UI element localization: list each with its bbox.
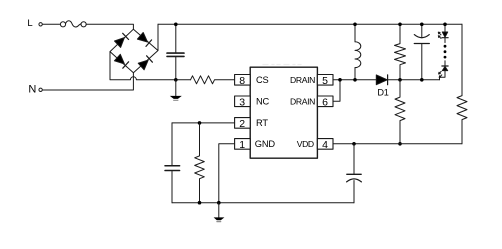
LED string top wire — [444, 24, 446, 32]
wire LED2 to switch node with jog — [440, 71, 446, 80]
capacitor C1 (bulk after bridge) — [167, 24, 184, 80]
pin 5 box — [317, 75, 333, 88]
wire fuse to bridge top — [86, 24, 133, 29]
resistor R1 (to CS pin) — [191, 76, 235, 84]
terminal N — [39, 88, 42, 91]
resistor R5 (RT) — [195, 123, 205, 203]
op-amp-style IC U1 body — [250, 67, 317, 158]
bridge diode left-bottom — [114, 54, 128, 68]
terminal L — [39, 23, 42, 26]
wire VDD line — [333, 143, 462, 145]
pin 4 box — [317, 139, 333, 152]
wire LED1 to dots — [444, 38, 446, 42]
svg-text:RT: RT — [256, 118, 268, 128]
svg-text:5: 5 — [322, 75, 328, 87]
wire bottom rail — [172, 202, 354, 204]
svg-text:L: L — [27, 18, 32, 29]
fuse F1 — [60, 21, 86, 27]
diode D1 — [376, 75, 439, 85]
svg-text:CS: CS — [256, 75, 269, 85]
node N label — [28, 84, 36, 96]
junction dot rail-R2 — [398, 23, 402, 27]
capacitor C4 (RT) — [165, 123, 180, 203]
svg-text:DRAIN: DRAIN — [290, 96, 315, 106]
LED LED2 — [439, 66, 449, 78]
capacitor C2 (snubber) — [414, 24, 429, 80]
resistor R3 (right) — [457, 96, 467, 144]
svg-text:D1: D1 — [377, 87, 388, 97]
wire L terminal to fuse — [43, 23, 61, 25]
junction dot C2-switch node — [420, 78, 424, 82]
node L label — [27, 18, 32, 29]
svg-text:VDD: VDD — [297, 139, 314, 149]
junction dot rail-C1 — [174, 23, 178, 27]
inductor L1 — [355, 24, 361, 80]
ground (signal) — [214, 203, 225, 222]
wire pin 5 to switch node — [333, 79, 376, 81]
svg-text:1: 1 — [239, 139, 245, 151]
pin 6 box — [317, 96, 333, 109]
resistor R4 (switch node to VDD line) — [395, 80, 405, 144]
junction dot pin5/6 — [338, 78, 342, 82]
bridge rectifier BR1 outline — [110, 29, 158, 73]
svg-text:6: 6 — [322, 97, 328, 109]
wire pin 6 up to switch node — [333, 80, 340, 102]
svg-text:4: 4 — [322, 139, 328, 151]
junction dot rail-C2 — [420, 23, 424, 27]
junction dot RT net — [198, 121, 202, 125]
junction dot GND-bottom rail — [217, 201, 221, 205]
bridge diode bottom-right — [138, 56, 152, 70]
junction dot negline-C1 — [174, 78, 178, 82]
svg-text:N: N — [28, 84, 36, 96]
junction dot C3-VDD line — [352, 142, 356, 146]
faint marks above U1 — [263, 64, 305, 66]
wire bridge minus down and right to CS resistor — [110, 52, 191, 80]
pin 3 box — [235, 96, 251, 109]
dotted continuation — [444, 45, 447, 59]
bridge diode top-right — [137, 33, 151, 47]
pin 1 box — [235, 139, 251, 152]
wire bridge plus to top rail — [157, 24, 159, 50]
svg-text:2: 2 — [239, 118, 245, 130]
svg-text:3: 3 — [239, 97, 245, 109]
resistor R2 (rail to switch node) — [395, 24, 406, 80]
svg-text:NC: NC — [256, 96, 270, 106]
pin 2 box — [235, 118, 251, 131]
wire pin 1 GND down — [219, 144, 235, 203]
pin 8 box — [235, 75, 251, 88]
junction dot rail-LED — [443, 23, 447, 27]
svg-text:DRAIN: DRAIN — [290, 75, 315, 85]
junction dot R2-switch node — [398, 78, 402, 82]
junction dot R5-bottom rail — [198, 201, 202, 205]
svg-text:8: 8 — [239, 75, 245, 87]
wire pin 2 to RT net — [172, 122, 235, 124]
bridge diode left-top — [115, 33, 129, 47]
svg-text:GND: GND — [255, 139, 276, 149]
capacitor C3 (VDD) — [347, 144, 362, 203]
junction dot L1-switch node — [353, 78, 357, 82]
wire top rail — [158, 23, 462, 25]
wire N terminal to bridge bottom — [43, 73, 134, 90]
junction dot rail-L1 — [353, 23, 357, 27]
LED LED1 — [438, 32, 448, 38]
label D1 — [377, 87, 388, 97]
junction dot R4-VDD line — [398, 142, 402, 146]
wire right branch down — [461, 24, 463, 95]
ground (input side) — [170, 80, 182, 101]
wire dots to LED2 — [444, 61, 446, 66]
